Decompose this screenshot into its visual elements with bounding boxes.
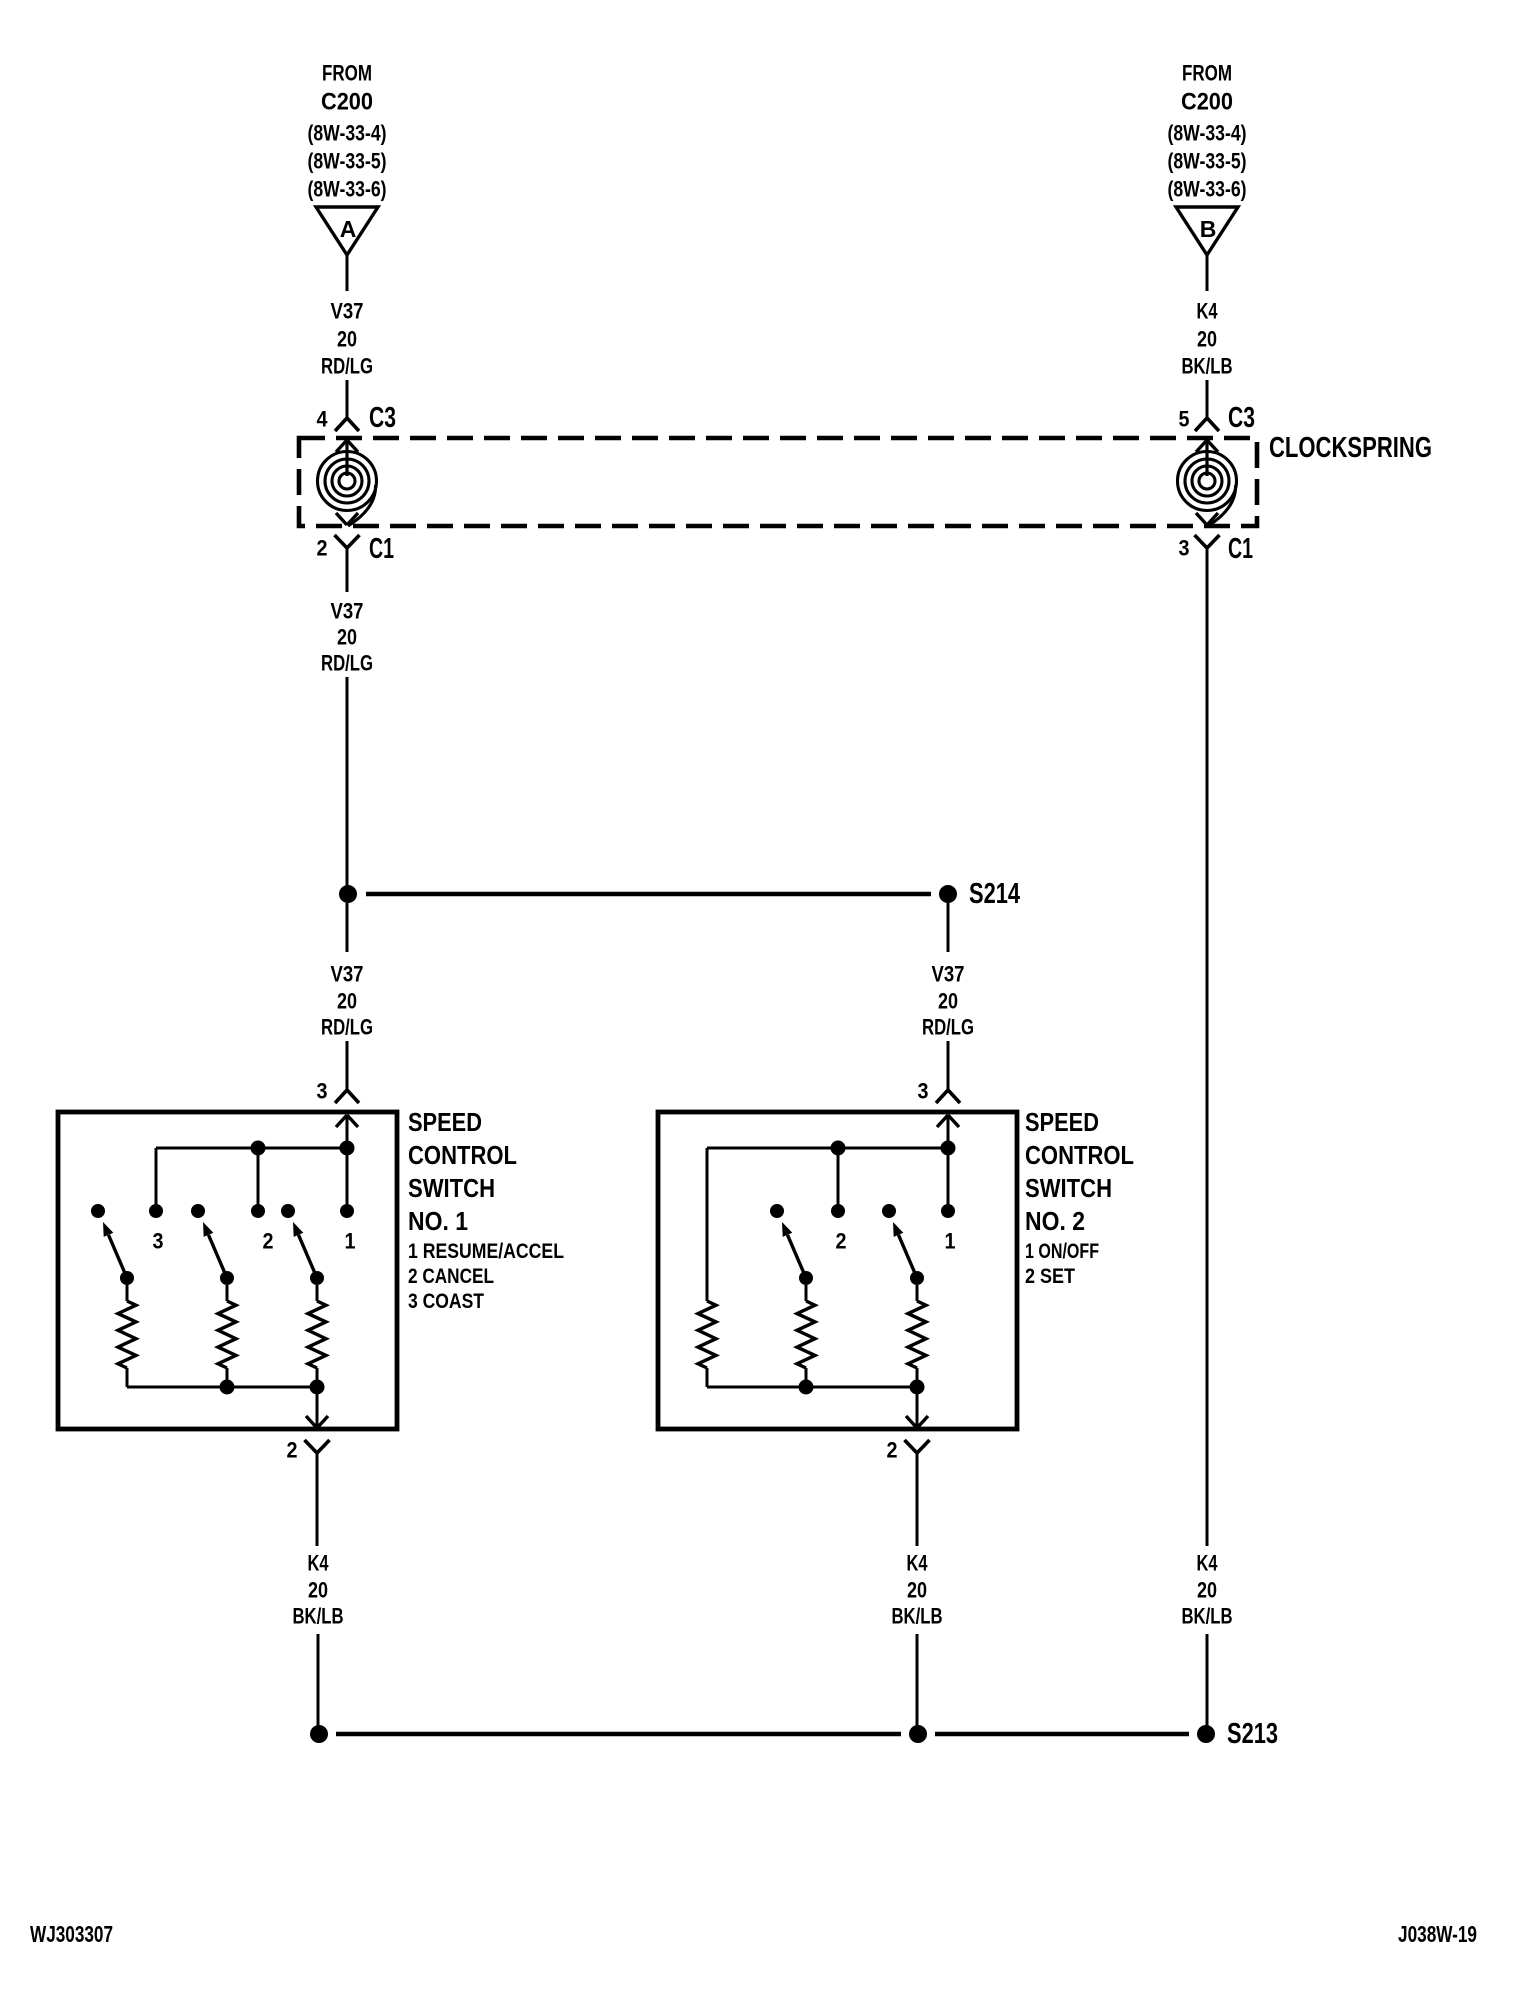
switch no.2 exit arrow (down) xyxy=(906,1416,928,1428)
svg-text:1: 1 xyxy=(345,1229,356,1254)
svg-text:(8W-33-5): (8W-33-5) xyxy=(1168,149,1247,174)
svg-text:2: 2 xyxy=(263,1229,274,1254)
clockspring left coil entry arrow (up) xyxy=(336,440,358,452)
svg-text:FROM: FROM xyxy=(322,61,372,86)
switch no.1 throw contact dot (coast) xyxy=(91,1204,105,1218)
svg-text:FROM: FROM xyxy=(1182,61,1232,86)
switch no.2 left branch wire to resistor xyxy=(706,1148,709,1301)
switch no.1 common bus wire xyxy=(156,1147,347,1150)
male connector pin 4 of clockspring C3 xyxy=(335,418,359,431)
switch no.1 bus junction dot (tap 1) xyxy=(340,1141,355,1156)
svg-text:A: A xyxy=(340,216,357,242)
svg-text:20: 20 xyxy=(337,989,357,1014)
svg-text:K4: K4 xyxy=(308,1551,330,1576)
svg-text:20: 20 xyxy=(1197,1578,1217,1603)
switch no.2 wire pivot to resistor (set) xyxy=(805,1285,808,1301)
switch no.1 output wire to box edge xyxy=(316,1387,319,1428)
switch no.2 wire resistor to output bus (left) xyxy=(706,1368,709,1387)
svg-text:20: 20 xyxy=(337,625,357,650)
switch no.2 arm pivot dot (on/off) xyxy=(910,1271,924,1285)
splice S213 junction dot (left) xyxy=(310,1725,328,1743)
clockspring dashed outline box xyxy=(299,438,1257,526)
switch no.2 arm with arrowhead (on/off) xyxy=(899,1235,918,1278)
switch no.1 resistor (coast) xyxy=(118,1301,136,1368)
clockspring left coil exit arrow (down) xyxy=(336,513,358,525)
svg-text:B: B xyxy=(1200,216,1217,242)
splice S213 junction dot (middle) xyxy=(909,1725,927,1743)
wire V37 from triangle A (upper segment) xyxy=(346,255,349,291)
svg-text:20: 20 xyxy=(938,989,958,1014)
switch no.2 entry wire to common bus xyxy=(947,1115,950,1148)
wire K4 from C1 down (long segment) xyxy=(1206,548,1209,1546)
svg-text:3: 3 xyxy=(317,1079,328,1104)
switch no.1 throw contact dot (resume) xyxy=(281,1204,295,1218)
switch no.1 arm pivot dot (coast) xyxy=(120,1271,134,1285)
switch no.2 wire resistor to output bus (on/off) xyxy=(916,1368,919,1387)
switch no.2 common bus wire xyxy=(707,1147,948,1150)
splice S213 bus wire (left span) xyxy=(336,1732,901,1736)
wire K4 below switch no.1 (upper segment) xyxy=(316,1453,319,1546)
svg-text:(8W-33-4): (8W-33-4) xyxy=(1168,121,1247,146)
male connector pin 5 of clockspring C3 xyxy=(1195,418,1219,431)
svg-text:RD/LG: RD/LG xyxy=(922,1015,974,1040)
male connector pin 3 of speed control switch no.2 xyxy=(936,1090,960,1103)
switch no.1 wire resistor to output bus (cancel) xyxy=(226,1368,229,1387)
svg-text:SWITCH: SWITCH xyxy=(1025,1173,1112,1203)
svg-text:2: 2 xyxy=(836,1229,847,1254)
switch no.2 arm with arrowhead (set) xyxy=(788,1235,807,1278)
wire K4 from label to splice S213 (middle) xyxy=(916,1634,919,1734)
clockspring left coil spiral xyxy=(318,452,377,527)
svg-text:1 ON/OFF: 1 ON/OFF xyxy=(1025,1240,1099,1263)
switch no.1 wire pivot to resistor (coast) xyxy=(126,1285,129,1301)
svg-text:K4: K4 xyxy=(1197,1551,1219,1576)
switch no.1 arm with arrowhead (coast) xyxy=(109,1235,128,1278)
svg-text:20: 20 xyxy=(1197,327,1217,352)
svg-text:20: 20 xyxy=(337,327,357,352)
svg-text:CONTROL: CONTROL xyxy=(1025,1140,1134,1170)
switch no.1 arm with arrowhead (cancel) xyxy=(209,1235,228,1278)
male connector pin 3 of speed control switch no.1 xyxy=(335,1090,359,1103)
splice S214 junction dot (right) xyxy=(939,885,957,903)
svg-text:BK/LB: BK/LB xyxy=(1182,1604,1233,1629)
switch no.1 output bus junction dot (middle) xyxy=(220,1380,235,1395)
switch no.1 output bus junction dot (right) xyxy=(310,1380,325,1395)
svg-text:C200: C200 xyxy=(321,88,373,115)
svg-text:1 RESUME/ACCEL: 1 RESUME/ACCEL xyxy=(408,1240,564,1263)
svg-text:3: 3 xyxy=(1179,536,1190,561)
wire K4 from triangle B (upper segment) xyxy=(1206,255,1209,291)
clockspring right coil wire into spiral xyxy=(1205,440,1208,476)
switch no.2 wire resistor to output bus (set) xyxy=(805,1368,808,1387)
switch no.1 output bus wire xyxy=(127,1386,317,1389)
switch no.1 wire resistor to output bus (coast) xyxy=(126,1368,129,1387)
svg-text:NO. 2: NO. 2 xyxy=(1025,1206,1085,1236)
switch no.2 throw contact dot (set) xyxy=(770,1204,784,1218)
svg-text:RD/LG: RD/LG xyxy=(321,354,373,379)
svg-text:C200: C200 xyxy=(1181,88,1233,115)
switch no.2 arm pivot dot (set) xyxy=(799,1271,813,1285)
switch no.2 fixed contact 2 dot xyxy=(831,1204,845,1218)
switch no.2 resistor (left branch) xyxy=(698,1301,716,1368)
switch no.2 fixed contact 1 dot xyxy=(941,1204,955,1218)
switch no.1 wire pivot to resistor (cancel) xyxy=(226,1285,229,1301)
clockspring right coil exit arrow (down) xyxy=(1196,513,1218,525)
switch no.2 bus junction dot (tap 2) xyxy=(831,1141,846,1156)
svg-text:(8W-33-5): (8W-33-5) xyxy=(308,149,387,174)
switch no.2 resistor (on/off) xyxy=(908,1301,926,1368)
switch no.1 bus tap stub to contact 1 xyxy=(346,1148,349,1211)
svg-text:CLOCKSPRING: CLOCKSPRING xyxy=(1269,432,1432,464)
wire V37 from S214 to label (left drop) xyxy=(346,903,349,952)
female connector pin 2 of clockspring C1 xyxy=(335,535,360,548)
switch no.1 fixed contact 2 dot xyxy=(251,1204,265,1218)
svg-text:RD/LG: RD/LG xyxy=(321,1015,373,1040)
svg-text:(8W-33-4): (8W-33-4) xyxy=(308,121,387,146)
svg-text:C1: C1 xyxy=(369,533,394,565)
switch no.1 fixed contact 1 dot xyxy=(340,1204,354,1218)
splice S214 junction dot (left) xyxy=(339,885,357,903)
switch no.1 arm pivot dot (cancel) xyxy=(220,1271,234,1285)
female connector pin 2 of switch no.1 xyxy=(305,1440,330,1453)
wire V37 below C1 (segment above label) xyxy=(346,548,349,592)
wire K4 from label to splice S213 (right) xyxy=(1206,1634,1209,1734)
svg-text:K4: K4 xyxy=(1197,299,1219,324)
switch no.2 throw contact dot (on/off) xyxy=(882,1204,896,1218)
switch no.1 arm pivot dot (resume) xyxy=(310,1271,324,1285)
svg-text:V37: V37 xyxy=(331,299,364,324)
svg-text:4: 4 xyxy=(317,407,329,432)
clockspring right coil entry arrow (up) xyxy=(1196,440,1218,452)
svg-text:WJ303307: WJ303307 xyxy=(30,1921,113,1947)
switch no.2 bus tap stub to contact 1 xyxy=(947,1148,950,1211)
wire V37 to clockspring pin 4 (lower segment) xyxy=(346,380,349,418)
clockspring right coil spiral xyxy=(1178,452,1237,527)
svg-text:3 COAST: 3 COAST xyxy=(408,1290,484,1313)
switch no.1 resistor (cancel) xyxy=(218,1301,236,1368)
svg-text:S213: S213 xyxy=(1227,1718,1278,1750)
wire V37 to switch no.1 pin 3 xyxy=(346,1041,349,1090)
svg-text:C3: C3 xyxy=(369,402,396,434)
switch no.2 bus junction dot (tap 1) xyxy=(941,1141,956,1156)
svg-text:RD/LG: RD/LG xyxy=(321,651,373,676)
off-page reference triangle B xyxy=(1176,207,1238,255)
wire K4 from label to splice S213 (left) xyxy=(317,1634,320,1734)
off-page reference triangle A xyxy=(316,207,378,255)
switch no.2 resistor (set) xyxy=(797,1301,815,1368)
wire V37 from label to splice S214 xyxy=(346,677,349,894)
svg-text:(8W-33-6): (8W-33-6) xyxy=(1168,177,1247,202)
switch no.1 entry arrow (up) xyxy=(336,1115,358,1127)
svg-text:SPEED: SPEED xyxy=(408,1107,482,1137)
svg-text:CONTROL: CONTROL xyxy=(408,1140,517,1170)
svg-text:S214: S214 xyxy=(969,878,1020,910)
switch no.1 arm with arrowhead (resume) xyxy=(299,1235,318,1278)
svg-text:BK/LB: BK/LB xyxy=(892,1604,943,1629)
svg-text:BK/LB: BK/LB xyxy=(293,1604,344,1629)
svg-text:C3: C3 xyxy=(1228,402,1255,434)
svg-text:3: 3 xyxy=(153,1229,164,1254)
switch no.2 output bus wire xyxy=(707,1386,917,1389)
svg-text:20: 20 xyxy=(907,1578,927,1603)
switch no.1 entry wire to common bus xyxy=(346,1115,349,1148)
svg-text:5: 5 xyxy=(1179,407,1190,432)
switch no.2 output wire to box edge xyxy=(916,1387,919,1428)
wire K4 below switch no.2 (upper segment) xyxy=(916,1453,919,1546)
switch no.2 output bus junction dot (middle) xyxy=(799,1380,814,1395)
svg-text:20: 20 xyxy=(308,1578,328,1603)
speed control switch no.1 box outline xyxy=(58,1112,397,1429)
svg-text:2 SET: 2 SET xyxy=(1025,1265,1075,1288)
speed control switch no.2 box outline xyxy=(658,1112,1017,1429)
svg-text:C1: C1 xyxy=(1228,533,1253,565)
svg-text:V37: V37 xyxy=(331,962,364,987)
switch no.1 resistor (resume) xyxy=(308,1301,326,1368)
svg-text:SWITCH: SWITCH xyxy=(408,1173,495,1203)
switch no.1 wire pivot to resistor (resume) xyxy=(316,1285,319,1301)
svg-text:1: 1 xyxy=(945,1229,956,1254)
svg-text:V37: V37 xyxy=(331,599,364,624)
switch no.1 bus junction dot (tap 2) xyxy=(251,1141,266,1156)
splice S213 bus wire (right span) xyxy=(935,1732,1189,1736)
wire K4 to clockspring pin 5 (lower segment) xyxy=(1206,380,1209,418)
splice S214 bus wire xyxy=(366,892,931,896)
svg-text:(8W-33-6): (8W-33-6) xyxy=(308,177,387,202)
svg-text:2: 2 xyxy=(317,536,328,561)
switch no.1 bus tap stub to contact 2 xyxy=(257,1148,260,1211)
switch no.1 throw contact dot (cancel) xyxy=(191,1204,205,1218)
svg-text:J038W-19: J038W-19 xyxy=(1398,1921,1477,1947)
splice S213 junction dot (right) xyxy=(1197,1725,1215,1743)
svg-text:SPEED: SPEED xyxy=(1025,1107,1099,1137)
svg-text:2: 2 xyxy=(887,1438,898,1463)
switch no.1 wire resistor to output bus (resume) xyxy=(316,1368,319,1387)
switch no.2 bus tap stub to contact 2 xyxy=(837,1148,840,1211)
svg-text:BK/LB: BK/LB xyxy=(1182,354,1233,379)
female connector pin 3 of clockspring C1 xyxy=(1195,535,1220,548)
female connector pin 2 of switch no.2 xyxy=(905,1440,930,1453)
switch no.1 bus tap stub to contact 3 xyxy=(155,1148,158,1211)
svg-text:2 CANCEL: 2 CANCEL xyxy=(408,1265,494,1288)
svg-text:3: 3 xyxy=(918,1079,929,1104)
clockspring left coil wire into spiral xyxy=(345,440,348,476)
wire V37 to switch no.2 pin 3 xyxy=(947,1041,950,1090)
svg-text:NO. 1: NO. 1 xyxy=(408,1206,468,1236)
switch no.2 wire pivot to resistor (on/off) xyxy=(916,1285,919,1301)
svg-text:V37: V37 xyxy=(932,962,965,987)
svg-text:K4: K4 xyxy=(907,1551,929,1576)
wire V37 from S214 to label (right drop) xyxy=(947,903,950,952)
switch no.2 output bus junction dot (right) xyxy=(910,1380,925,1395)
svg-text:2: 2 xyxy=(287,1438,298,1463)
switch no.2 entry arrow (up) xyxy=(937,1115,959,1127)
switch no.1 exit arrow (down) xyxy=(306,1416,328,1428)
switch no.1 fixed contact 3 dot xyxy=(149,1204,163,1218)
